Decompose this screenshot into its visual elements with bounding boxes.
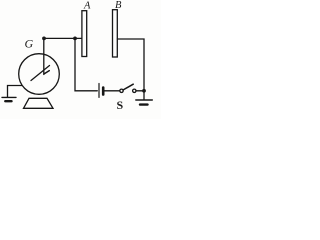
svg-text:A: A: [83, 1, 91, 12]
battery long plate: [98, 84, 100, 98]
wire from G left side to ground: [8, 86, 23, 98]
stand base of G: [24, 98, 54, 108]
needle arrow barb: [44, 71, 49, 74]
wire battery to switch: [105, 90, 120, 92]
ground (right) long bar: [136, 99, 153, 101]
galvanometer G body: [19, 54, 60, 95]
ground (left) short bar: [5, 100, 11, 102]
switch S left contact: [120, 89, 123, 92]
node dot near plate A: [73, 37, 77, 41]
wire node dot at G terminal: [42, 37, 46, 41]
ground (left) long bar: [2, 96, 16, 98]
svg-text:S: S: [117, 98, 124, 112]
node dot right: [142, 89, 146, 93]
switch S blade: [123, 84, 133, 90]
battery short plate: [102, 88, 105, 95]
wire node A to plate A: [75, 37, 82, 39]
plate A: [82, 11, 87, 57]
galvanometer needle: [31, 66, 50, 81]
plate B: [113, 10, 118, 57]
wire from node A down and along bottom to battery: [75, 38, 97, 90]
svg-text:B: B: [115, 0, 122, 11]
svg-text:G: G: [25, 37, 34, 51]
switch S right contact: [133, 89, 136, 92]
wire switch to right node: [136, 90, 144, 92]
wire node to right ground: [143, 91, 145, 100]
wire plate B to right node: [117, 39, 144, 89]
galvanometer pointer pivot line: [43, 40, 45, 75]
ground (right) short bar: [140, 103, 148, 105]
wire from node at G top to node near plate A: [44, 37, 75, 39]
